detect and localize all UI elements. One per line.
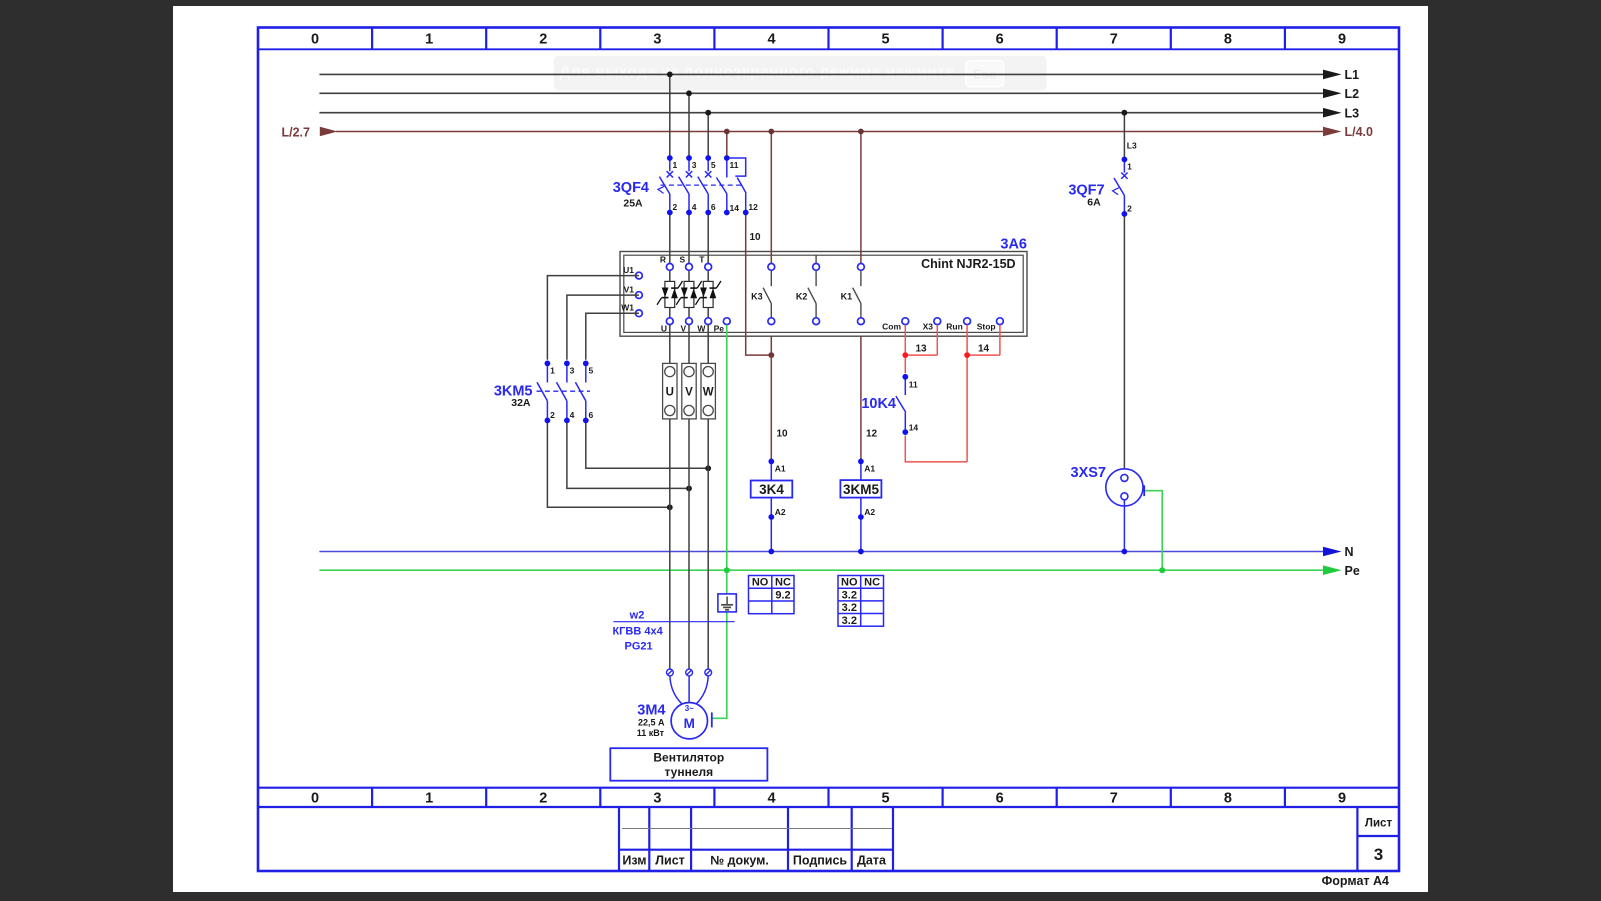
wire L tap to K3 input <box>770 132 772 264</box>
svg-text:Com: Com <box>882 322 901 332</box>
svg-text:Лист: Лист <box>1365 818 1393 830</box>
svg-text:3: 3 <box>1374 845 1383 864</box>
contact reference table 3KM5 <box>838 576 884 627</box>
svg-text:3.2: 3.2 <box>842 602 857 614</box>
soft starter 3A6 enclosure <box>620 237 1027 337</box>
wire R S T inside block <box>670 252 708 264</box>
svg-text:9: 9 <box>1338 32 1346 48</box>
wire L3 tap to 3QF4 pole 5 <box>707 113 709 156</box>
svg-text:2: 2 <box>673 202 678 212</box>
wire L3 tap to 3QF7 <box>1124 113 1137 157</box>
svg-text:1: 1 <box>673 160 678 170</box>
circuit breaker 3QF4 <box>658 158 746 213</box>
svg-text:K3: K3 <box>751 292 763 302</box>
cable marker w2 <box>612 610 734 653</box>
svg-text:T: T <box>699 255 705 265</box>
coil 3K4 <box>751 459 793 552</box>
svg-text:2: 2 <box>539 32 547 48</box>
svg-text:3М4: 3М4 <box>637 703 665 719</box>
wire Pe bus <box>319 564 1359 578</box>
node L tap K1 <box>858 129 864 135</box>
node L tap K3 <box>768 129 774 135</box>
thyristor module phase S <box>676 270 701 318</box>
svg-text:10K4: 10K4 <box>861 396 896 412</box>
svg-text:Подпись: Подпись <box>793 854 848 868</box>
svg-text:14: 14 <box>730 203 740 213</box>
net 13 label <box>916 344 928 355</box>
thyristor module phase T <box>696 270 721 318</box>
svg-text:1: 1 <box>425 32 433 48</box>
svg-text:0: 0 <box>311 32 319 48</box>
title block labels <box>622 854 887 868</box>
svg-text:1: 1 <box>550 366 555 376</box>
node bypass W <box>705 465 711 471</box>
svg-text:3: 3 <box>570 366 575 376</box>
svg-text:3.2: 3.2 <box>842 589 857 601</box>
svg-text:Формат А4: Формат А4 <box>1322 874 1389 888</box>
motor 3M4 body <box>671 703 712 739</box>
ground symbol box <box>718 594 736 612</box>
wire N bus <box>319 545 1353 559</box>
contact reference table 3K4 <box>749 576 795 614</box>
svg-text:Для выхода из полноэкранного р: Для выхода из полноэкранного режима нажм… <box>559 64 954 81</box>
wire net 14 Run Stop bracket <box>967 325 1000 462</box>
svg-text:5: 5 <box>589 366 594 376</box>
svg-text:L/2.7: L/2.7 <box>282 125 311 139</box>
wire 3QF4 pole1 to R <box>669 215 671 263</box>
svg-text:9: 9 <box>1338 791 1346 807</box>
svg-text:L1: L1 <box>1345 68 1360 82</box>
3QF4 terminal dots <box>667 155 749 215</box>
wire L2 bus <box>319 87 1359 101</box>
svg-text:V: V <box>685 387 693 399</box>
3QF7 terminal dots <box>1122 157 1128 217</box>
contact K2 <box>808 255 816 317</box>
svg-text:N: N <box>1345 545 1354 559</box>
top ruler band <box>258 28 1399 50</box>
svg-text:Run: Run <box>946 322 963 332</box>
relay contact 10K4 <box>896 380 906 430</box>
svg-text:4: 4 <box>767 32 775 48</box>
svg-text:3.2: 3.2 <box>842 615 857 627</box>
node Pe junction <box>724 567 730 573</box>
wire Pe from block to motor <box>712 325 727 719</box>
wire K3 feed inside block <box>770 252 772 264</box>
wire socket earth to Pe <box>1145 491 1162 571</box>
sheet number box <box>1357 807 1399 871</box>
3QF7 labels <box>1068 183 1104 209</box>
wire L1 bus <box>319 68 1359 82</box>
svg-text:9.2: 9.2 <box>775 590 790 602</box>
svg-text:V1: V1 <box>624 285 635 295</box>
svg-text:10: 10 <box>777 429 789 440</box>
wire net 10 from aux 12 down and over to K3 output <box>746 215 772 355</box>
node L2 tap <box>686 90 692 96</box>
svg-text:3QF4: 3QF4 <box>613 180 649 196</box>
terminal block V <box>682 363 696 419</box>
svg-text:NO: NO <box>841 577 858 589</box>
3QF7 pin numbers <box>1127 161 1132 213</box>
svg-text:X3: X3 <box>923 322 934 332</box>
node L3 tap <box>705 110 711 116</box>
svg-text:M: M <box>684 716 695 731</box>
svg-text:7: 7 <box>1110 32 1118 48</box>
svg-text:S: S <box>680 255 686 265</box>
svg-text:A1: A1 <box>864 464 875 474</box>
wire bypass pole6 to W <box>586 423 708 468</box>
contact K3 label <box>751 292 763 302</box>
svg-text:11 кВт: 11 кВт <box>637 728 665 738</box>
node bypass U <box>667 504 673 510</box>
svg-text:W: W <box>703 387 714 399</box>
bottom ruler digits <box>311 791 1346 807</box>
wire 10K4 output loop <box>905 436 967 462</box>
svg-text:25A: 25A <box>623 198 643 210</box>
svg-text:3~: 3~ <box>685 704 694 713</box>
contact K3 <box>763 271 771 318</box>
wire W1 from contactor <box>586 313 639 360</box>
svg-text:U: U <box>661 324 667 334</box>
svg-text:32A: 32A <box>511 397 531 409</box>
svg-text:Chint NJR2-15D: Chint NJR2-15D <box>921 257 1015 271</box>
block terminals Com X3 Run Stop <box>882 318 1003 332</box>
svg-text:3XS7: 3XS7 <box>1071 465 1106 481</box>
wire 3QF4 pole3 to S <box>688 215 690 263</box>
wire 3QF7 to socket 3XS7 <box>1123 217 1125 472</box>
svg-text:туннеля: туннеля <box>664 765 713 779</box>
svg-text:2: 2 <box>1127 203 1132 213</box>
3KM5 labels <box>494 384 533 410</box>
svg-text:8: 8 <box>1224 791 1232 807</box>
circuit breaker 3QF7 <box>1113 159 1128 214</box>
svg-text:K1: K1 <box>841 292 853 302</box>
svg-text:NO: NO <box>752 577 769 589</box>
wire L tap to 3QF4 aux 11 <box>726 132 728 156</box>
terminal block U <box>663 363 677 419</box>
svg-text:3K4: 3K4 <box>759 482 784 497</box>
wire 3QF4 pole5 to T <box>707 215 709 263</box>
wire U1 from contactor <box>547 276 639 360</box>
top ruler digits <box>311 32 1346 48</box>
svg-text:6: 6 <box>996 32 1004 48</box>
socket 3XS7 <box>1071 465 1145 506</box>
svg-text:№ докум.: № докум. <box>710 854 769 868</box>
wire net 13 Com X3 bracket <box>905 325 937 374</box>
svg-text:L3: L3 <box>1127 141 1137 151</box>
svg-text:5: 5 <box>711 160 716 170</box>
node socket earth on Pe <box>1159 567 1165 573</box>
coil 3KM5 <box>840 459 881 552</box>
svg-text:W1: W1 <box>621 303 634 313</box>
block terminals K columns <box>768 264 864 325</box>
node bypass V <box>686 486 692 492</box>
wire socket to N <box>1123 500 1125 552</box>
svg-text:Pe: Pe <box>1345 564 1360 578</box>
drawing frame border <box>258 28 1399 872</box>
svg-text:13: 13 <box>916 344 928 355</box>
wire L2 tap to 3QF4 pole 3 <box>688 93 690 155</box>
format label <box>1322 874 1389 888</box>
node net10 junction <box>768 352 774 358</box>
svg-text:14: 14 <box>978 344 990 355</box>
svg-text:K2: K2 <box>796 292 808 302</box>
svg-text:14: 14 <box>909 423 919 433</box>
contactor 3KM5 poles <box>537 365 591 418</box>
wire net 10 K3 output to coil 3K4 A1 <box>771 325 788 459</box>
block terminals R S T <box>660 255 712 271</box>
node net14 <box>964 352 970 358</box>
svg-text:5: 5 <box>882 791 890 807</box>
svg-text:2: 2 <box>539 791 547 807</box>
fullscreen toast overlay <box>554 56 1047 91</box>
svg-text:12: 12 <box>748 202 758 212</box>
svg-text:4: 4 <box>692 202 697 212</box>
svg-text:R: R <box>660 255 666 265</box>
svg-text:V: V <box>681 324 687 334</box>
svg-text:4: 4 <box>570 410 575 420</box>
svg-text:1: 1 <box>1127 161 1132 171</box>
svg-text:w2: w2 <box>629 610 645 622</box>
svg-text:Изм: Изм <box>622 854 646 868</box>
svg-text:6: 6 <box>589 410 594 420</box>
wire L3 bus <box>319 106 1359 120</box>
node socket on N <box>1122 549 1128 555</box>
fan description box <box>610 748 767 781</box>
wire phase W output to motor <box>707 325 709 669</box>
svg-text:0: 0 <box>311 791 319 807</box>
svg-text:6A: 6A <box>1087 197 1101 209</box>
svg-text:W: W <box>697 324 706 334</box>
10K4 terminal dots <box>902 374 908 435</box>
svg-text:3: 3 <box>653 791 661 807</box>
svg-text:A2: A2 <box>775 507 786 517</box>
wire L tap to K1 input <box>860 132 862 264</box>
3KM5 pin numbers <box>550 366 593 421</box>
svg-text:U: U <box>666 387 674 399</box>
svg-text:Вентилятор: Вентилятор <box>653 751 724 765</box>
contact K1 <box>853 271 861 318</box>
svg-text:A2: A2 <box>864 507 875 517</box>
10K4 labels <box>861 380 918 433</box>
node L tap aux <box>724 129 730 135</box>
contact K1 label <box>841 292 853 302</box>
svg-text:NC: NC <box>864 577 880 589</box>
motor 3M4 terminals <box>667 669 712 676</box>
svg-text:4: 4 <box>767 791 775 807</box>
svg-text:L3: L3 <box>1345 106 1360 120</box>
node L1 tap <box>667 72 673 78</box>
block terminals U V W Pe <box>661 318 730 334</box>
wire L control bus <box>282 125 1374 139</box>
motor labels <box>637 703 666 739</box>
svg-text:Pe: Pe <box>714 324 725 334</box>
svg-text:22,5 А: 22,5 А <box>638 718 665 728</box>
wire bypass pole4 to V <box>567 423 689 488</box>
3QF4 labels <box>613 180 649 210</box>
svg-text:10: 10 <box>750 232 762 243</box>
motor lead wires <box>670 676 708 704</box>
svg-text:1: 1 <box>425 791 433 807</box>
thyristor module phase R <box>657 270 682 318</box>
node L3 tap 3QF7 <box>1122 110 1128 116</box>
node 3K4 on N <box>768 549 774 555</box>
3KM5 terminal dots <box>545 361 589 424</box>
svg-text:3: 3 <box>692 160 697 170</box>
block terminals U1 V1 W1 <box>621 265 642 317</box>
contact K2 label <box>796 292 808 302</box>
svg-text:5: 5 <box>882 32 890 48</box>
svg-text:3KM5: 3KM5 <box>843 482 880 497</box>
wire phase V output to motor <box>688 325 690 669</box>
svg-text:PG21: PG21 <box>625 641 653 653</box>
svg-text:A1: A1 <box>775 464 786 474</box>
wire phase U output to motor <box>669 325 671 669</box>
wire net 12 K1 output to coil 3KM5 A1 <box>861 325 878 459</box>
node net13 <box>902 352 908 358</box>
wire net10 crossing block (redraw over box) <box>745 252 747 337</box>
svg-text:3A6: 3A6 <box>1000 237 1027 253</box>
3QF4 pin numbers <box>673 160 759 213</box>
node 3KM5 on N <box>858 549 864 555</box>
terminal block W <box>701 363 715 419</box>
svg-text:L2: L2 <box>1345 87 1360 101</box>
svg-text:U1: U1 <box>623 265 634 275</box>
wire L1 tap to 3QF4 pole 1 <box>669 74 671 155</box>
svg-text:7: 7 <box>1110 791 1118 807</box>
svg-text:11: 11 <box>730 160 739 170</box>
svg-text:2: 2 <box>550 410 555 420</box>
svg-text:Лист: Лист <box>655 854 685 868</box>
svg-text:6: 6 <box>711 202 716 212</box>
net 14 label <box>978 344 990 355</box>
svg-text:NC: NC <box>775 577 791 589</box>
svg-text:Дата: Дата <box>857 854 887 868</box>
svg-text:8: 8 <box>1224 32 1232 48</box>
bottom ruler band <box>258 788 1399 807</box>
svg-text:Stop: Stop <box>977 322 996 332</box>
svg-text:11: 11 <box>909 380 918 390</box>
wire bypass pole2 to U <box>547 423 669 507</box>
svg-text:L/4.0: L/4.0 <box>1345 125 1374 139</box>
svg-text:3: 3 <box>653 32 661 48</box>
svg-text:6: 6 <box>996 791 1004 807</box>
svg-text:12: 12 <box>866 429 878 440</box>
svg-text:КГВВ 4х4: КГВВ 4х4 <box>612 626 663 638</box>
title block grid <box>619 807 893 871</box>
wire V1 from contactor <box>567 295 639 360</box>
wire K1 feed inside block <box>860 252 862 264</box>
